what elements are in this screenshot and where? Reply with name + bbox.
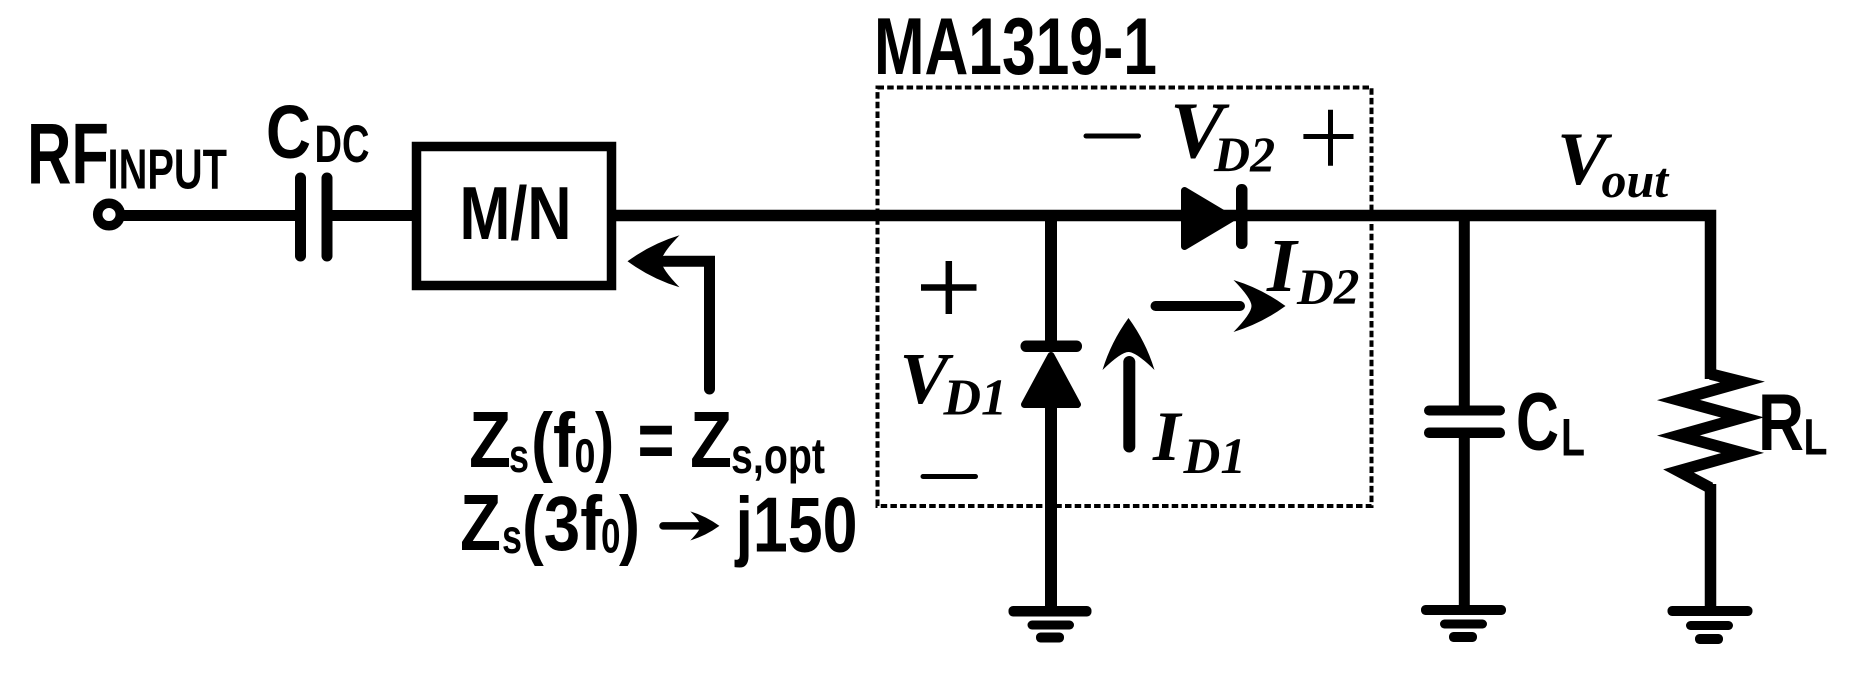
ground (R_L) [1668,606,1753,644]
current arrow I_D2 [1156,280,1286,332]
node RF input terminal [98,203,121,226]
svg-text:RF: RF [27,106,109,202]
svg-text:MA1319-1: MA1319-1 [874,2,1157,92]
svg-text:C: C [266,90,311,174]
svg-text:j150: j150 [734,481,858,569]
capacitor C_L [1424,406,1505,439]
svg-text:s: s [502,511,522,564]
wire from RF terminal to C_DC [122,210,296,221]
svg-text:Z: Z [469,395,511,484]
wire down to C_L [1459,216,1470,408]
label + (V_D1 plus) [921,261,977,314]
svg-text:DC: DC [315,115,370,174]
label - (V_D1 minus) [923,474,976,479]
svg-text:0: 0 [575,429,596,482]
wire junction down to diode D1 [1045,216,1057,347]
label Zs(3f0) -> j150 [460,478,858,569]
svg-text:s: s [509,429,529,482]
arrow pointing to M/N output (source impedance annotation) [628,235,710,389]
label Zs(f0) = Zs,opt [469,395,825,484]
current arrow I_D1 [1103,318,1155,447]
svg-text:): ) [595,398,614,484]
svg-text:INPUT: INPUT [108,138,228,201]
diode D1 (shunt, anode down / pointing up) [1021,341,1083,405]
svg-text:M/N: M/N [460,171,572,255]
svg-text:out: out [1602,152,1671,208]
ground (D1) [1009,606,1092,643]
wire from C_DC to M/N box [333,210,418,221]
svg-text:=: = [638,395,675,484]
svg-text:Z: Z [690,395,732,484]
svg-text:C: C [1516,376,1559,467]
svg-text:(3f: (3f [522,481,602,567]
resistor R_L [1679,374,1743,488]
svg-text:): ) [619,481,640,567]
label + (V_D2 plus) [1303,110,1353,166]
svg-text:0: 0 [601,511,621,564]
svg-text:D1: D1 [1183,429,1246,485]
matching network box M/N [417,147,612,286]
wire from R_L to ground [1705,484,1717,612]
svg-text:s,opt: s,opt [731,427,825,484]
svg-text:I: I [1266,224,1299,308]
wire from C_L to ground [1459,436,1470,612]
svg-text:Z: Z [460,478,501,567]
wire from M/N box to Vout corner and down to R_L [611,216,1711,380]
ground (C_L) [1421,605,1506,642]
svg-text:I: I [1152,398,1183,476]
label - (V_D2 minus) [1086,134,1139,139]
svg-text:R: R [1758,378,1804,468]
wire from D1 to ground [1045,404,1057,612]
svg-text:D2: D2 [1296,260,1359,316]
dashed box MA1319-1 [878,88,1372,507]
svg-text:D2: D2 [1213,126,1275,182]
svg-text:L: L [1561,409,1585,468]
svg-text:D1: D1 [943,370,1008,427]
diode D2 (series, pointing right) [1185,184,1248,249]
svg-text:L: L [1804,408,1828,465]
capacitor C_DC [295,173,333,262]
svg-text:(f: (f [531,398,575,484]
